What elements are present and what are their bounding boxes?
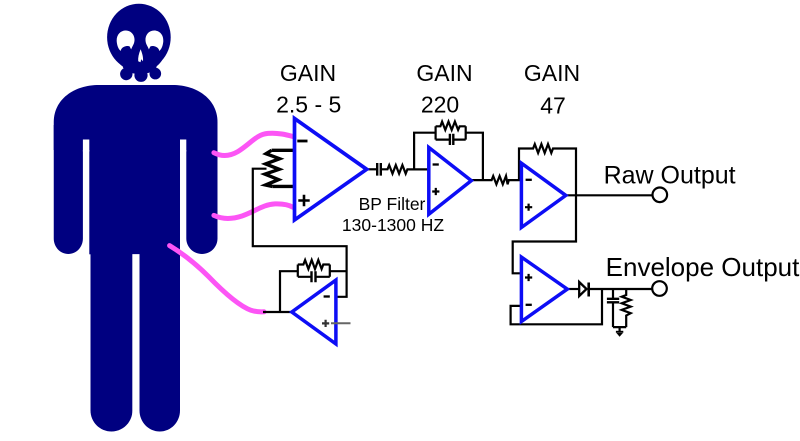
ground symbol [616, 331, 623, 333]
left eye [117, 30, 135, 51]
svg-text:GAIN: GAIN [280, 60, 336, 86]
svg-text:GAIN: GAIN [524, 60, 580, 86]
op3 feedback loop [513, 144, 576, 273]
op2 output wire + resistor R4 [471, 176, 521, 184]
capacitor C1 plates [377, 163, 381, 176]
op4 feedback loop [511, 289, 602, 324]
diode D1 [579, 282, 586, 296]
op-amp U5 (DRL, points left) [292, 280, 336, 344]
right eye [145, 30, 163, 51]
ground arrow [616, 333, 623, 337]
RC bottom join + ground stub [613, 327, 626, 332]
op4 output to diode [567, 288, 579, 290]
skull cranium [107, 4, 171, 71]
human figure [54, 4, 218, 432]
svg-text:220: 220 [421, 92, 459, 118]
gain resistor R1 stubs (thick) [272, 150, 295, 186]
DRL feedback resistor [298, 260, 330, 269]
resistor R2 (series) [381, 165, 429, 174]
svg-text:BP Filter: BP Filter [359, 194, 426, 214]
skull eyes and nose (white) [117, 30, 164, 62]
op2 feedback right down to output [466, 133, 483, 180]
nose [138, 49, 143, 62]
op2 feedback box left/right sides [436, 126, 466, 139]
DRL feedback cap [298, 276, 330, 278]
op-amp U1 [295, 119, 367, 221]
op2 feedback tap vertical [414, 133, 436, 170]
op2 feedback cap C2 [436, 139, 466, 141]
right leg [140, 200, 181, 432]
svg-text:Raw Output: Raw Output [604, 162, 736, 190]
op-amp U2 [429, 148, 472, 215]
svg-text:Envelope Output: Envelope Output [606, 252, 800, 282]
arm slits (white) [83, 140, 89, 152]
op3 output to raw [566, 194, 653, 196]
envelope resistor R6 branch [622, 289, 631, 327]
crotch slit (white) [132, 254, 139, 434]
electrode wire 3 (bottom, pink) [170, 246, 264, 312]
torso [89, 120, 180, 254]
op-amp U4 [521, 257, 567, 321]
op1 output wire [366, 168, 376, 170]
svg-text:GAIN: GAIN [416, 60, 472, 86]
diode to envelope terminal [589, 288, 652, 290]
svg-text:130-1300 HZ: 130-1300 HZ [342, 215, 444, 235]
electrode wire 1 (top, pink) [214, 133, 294, 155]
envelope output terminal [652, 281, 667, 296]
electrode wire 2 (middle, pink) [214, 204, 294, 219]
envelope cap C4 branch [612, 289, 614, 327]
raw output terminal [653, 188, 668, 203]
DRL feedback left + box [280, 265, 347, 313]
DRL plus ref line (gray) [331, 322, 351, 324]
right arm [186, 125, 217, 254]
shoulder block [54, 85, 218, 150]
DRL output wire [263, 311, 292, 313]
op1 minus [297, 140, 307, 143]
op2 feedback resistor R3 [436, 122, 466, 130]
svg-text:47: 47 [540, 93, 566, 119]
left leg [91, 200, 133, 432]
skull jaw bumps [120, 68, 132, 80]
wire from R1 to DRL net [253, 169, 347, 297]
left arm [54, 125, 83, 254]
skull lower cranium fill [114, 28, 165, 72]
op-amp U3 [521, 163, 565, 227]
gain resistor R1 zigzag [265, 150, 280, 186]
op1 plus [298, 195, 309, 206]
svg-text:2.5 - 5: 2.5 - 5 [276, 92, 341, 118]
